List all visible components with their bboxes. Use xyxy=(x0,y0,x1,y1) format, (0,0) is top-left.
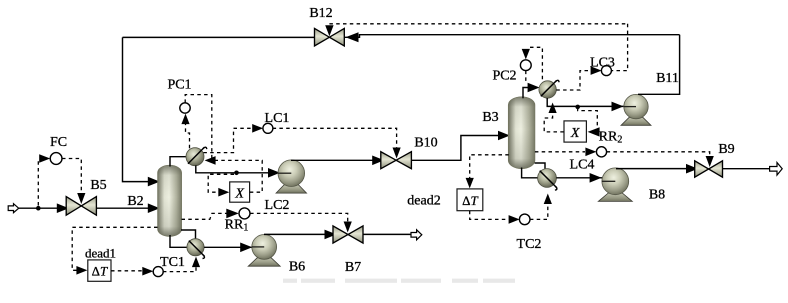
signal column B3 temperature tap to dead2 xyxy=(470,155,509,180)
signal condenser 2 to PC2 xyxy=(528,47,543,79)
signal arrow LC2 into valve B7 xyxy=(344,222,352,233)
signal X1 output to condenser 1 xyxy=(213,160,262,192)
signal arrow into FC xyxy=(39,154,50,163)
signal arrow into PC2 xyxy=(522,49,530,60)
signal LC4 to valve B9 xyxy=(607,152,710,158)
valve B12 xyxy=(315,28,330,46)
signal arrow into LC1 xyxy=(252,124,263,133)
signal arrow into TC2 xyxy=(509,215,520,224)
signal arrow X2 into condenser 2 xyxy=(549,103,557,114)
signal column B3 sump level to LC4 xyxy=(535,151,585,153)
signal column B2 sump level to LC2 xyxy=(182,213,229,219)
flow arrow into pump B11 xyxy=(612,102,624,112)
wire valve B10 to column B3 feed xyxy=(411,136,506,161)
svg-text:B11: B11 xyxy=(656,71,679,86)
signal arrow into condenser 1 xyxy=(205,156,216,165)
wire top recycle line right of B12 xyxy=(344,35,679,38)
valve B5 xyxy=(66,197,81,216)
signal X2 output to condenser 2 xyxy=(544,112,564,132)
svg-text:LC4: LC4 xyxy=(570,158,595,173)
signal arrow FC into valve B5 xyxy=(77,193,85,204)
signal arrow into LC3 xyxy=(591,66,602,75)
signal LC2 to valve B7 xyxy=(250,213,348,221)
flow arrow into valve B10 xyxy=(372,156,384,166)
svg-text:PC2: PC2 xyxy=(492,69,516,84)
svg-text:LC3: LC3 xyxy=(590,56,615,71)
svg-text:PC1: PC1 xyxy=(167,78,191,93)
deadtime box dead2 xyxy=(457,189,483,211)
flow arrow recycle into column B2 xyxy=(148,177,160,187)
signal column B2 temperature tap to dead1 xyxy=(72,227,157,270)
reboiler 2 (column B3 bottoms heater) xyxy=(538,169,557,188)
wire condenser 1 outlet to pump xyxy=(196,165,279,172)
signal arrow into LC2 xyxy=(226,209,239,219)
signal tap to multiplier X2 xyxy=(578,108,598,132)
flow arrow into distillate pump xyxy=(268,168,280,178)
wire column B2 side to reboiler 1 top xyxy=(181,230,196,239)
signal arrow TC1 into reboiler 1 xyxy=(192,257,200,268)
svg-text:FC: FC xyxy=(50,135,67,150)
signal arrow into TC1 xyxy=(142,267,153,276)
wire pump to valve B10 xyxy=(291,159,381,161)
signal arrow into X1 xyxy=(218,188,229,197)
svg-text:dead2: dead2 xyxy=(407,194,440,209)
condenser 2 (column B3 overhead heater) xyxy=(539,81,556,98)
feed inlet open arrow xyxy=(8,204,19,213)
signal arrow LC4 into valve B9 xyxy=(706,156,714,167)
wire B2 stream valve B5 to column B2 xyxy=(96,207,158,209)
wire top recycle line left of B12 xyxy=(123,36,315,38)
signal arrow into valve B12 xyxy=(325,25,333,36)
controller TC1 circle xyxy=(153,267,163,277)
wire feed line to valve B5 xyxy=(19,207,67,209)
controller LC3 circle xyxy=(601,66,611,76)
signal arrow into deadtime 1 xyxy=(76,266,87,275)
signal dead1 to TC1 xyxy=(111,270,145,272)
svg-text:TC1: TC1 xyxy=(160,255,185,270)
flow arrow B2 into column xyxy=(148,203,160,213)
svg-text:X: X xyxy=(234,187,244,202)
flow arrow overhead into condenser 2 xyxy=(528,83,540,93)
signal arrow into X2 xyxy=(588,127,600,136)
svg-text:RR1: RR1 xyxy=(225,218,249,234)
flow arrow feed into column B3 xyxy=(498,131,510,141)
node feed junction dot xyxy=(36,206,41,211)
svg-text:B5: B5 xyxy=(90,178,106,193)
pump B6 xyxy=(248,258,280,266)
pump B8 xyxy=(598,193,632,201)
signal arrow LC1 into valve B10 xyxy=(393,148,401,159)
signal feed flow tap to FC xyxy=(37,159,39,206)
svg-text:X: X xyxy=(570,126,580,141)
controller LC2/RR1 circle xyxy=(239,208,250,219)
wire pump B11 riser to top recycle line xyxy=(638,35,680,95)
node distillate junction dot xyxy=(234,171,239,176)
svg-text:TC2: TC2 xyxy=(517,237,542,252)
wire valve B7 outlet xyxy=(363,233,411,235)
pump B11 xyxy=(621,117,651,125)
svg-text:B8: B8 xyxy=(649,188,665,203)
svg-text:B9: B9 xyxy=(718,142,734,157)
svg-text:LC1: LC1 xyxy=(265,111,290,126)
wire pump B6 to valve B7 xyxy=(264,233,333,235)
column B3 vessel xyxy=(508,97,535,169)
controller TC2 circle xyxy=(519,214,530,225)
wire column B2 overhead to condenser xyxy=(170,157,186,167)
wire column B3 side to reboiler 2 top xyxy=(535,163,545,169)
flow arrow after B12 pointing left xyxy=(346,32,359,42)
pump distillate column 1 xyxy=(276,185,307,193)
signal arrow into LC4 xyxy=(585,148,596,157)
wire column B3 bottom to reboiler 2 xyxy=(522,168,538,178)
svg-text:LC2: LC2 xyxy=(265,198,290,213)
signal PC1 output loop xyxy=(185,95,212,161)
flow arrow into valve B5 xyxy=(57,203,69,213)
signal condenser 1 level tap to LC1 xyxy=(203,128,252,152)
deadtime box dead1 xyxy=(88,260,111,281)
valve B10 xyxy=(381,152,396,169)
svg-text:B7: B7 xyxy=(345,260,361,275)
svg-text:RR2: RR2 xyxy=(599,130,623,146)
signal PC2 output xyxy=(525,71,527,84)
controller LC4 circle xyxy=(596,147,606,157)
svg-text:B3: B3 xyxy=(482,110,498,125)
svg-text:B12: B12 xyxy=(309,6,332,21)
node distillate 2 junction dot xyxy=(575,105,580,110)
controller PC2 circle xyxy=(520,60,531,71)
signal condenser 1 to PC1 xyxy=(186,123,190,148)
svg-text:ΔT: ΔT xyxy=(92,264,108,279)
wire recycle riser left (from B12 down to column B2) xyxy=(123,37,158,181)
condenser 1 (column B2 overhead heater) xyxy=(186,148,204,166)
multiplier X1 box xyxy=(230,182,250,202)
signal arrow TC2 into reboiler 2 xyxy=(544,194,552,205)
signal arrow into deadtime 2 xyxy=(466,178,474,189)
wire column B3 overhead to condenser 2 xyxy=(523,88,528,99)
svg-text:B10: B10 xyxy=(414,136,437,151)
svg-text:ΔT: ΔT xyxy=(462,193,478,208)
valve B9 xyxy=(695,161,709,177)
bottoms 1 outlet open arrow xyxy=(411,230,422,240)
flow arrow into valve B7 xyxy=(325,230,337,240)
signal TC2 to reboiler 2 xyxy=(530,204,548,219)
flow arrow into valve B9 xyxy=(686,164,698,174)
signal riser x627 to LC3 xyxy=(611,24,627,71)
wire reboiler 1 to pump B6 xyxy=(204,246,253,248)
wire condenser 2 outlet to pump B11 xyxy=(547,98,624,106)
signal FC to valve B5 xyxy=(62,159,81,193)
signal LC1 to valve B10 xyxy=(273,128,397,147)
controller PC1 circle xyxy=(180,103,190,113)
signal TC1 to reboiler 1 xyxy=(163,262,196,272)
multiplier X2 box xyxy=(564,121,586,142)
signal condenser 2 level tap to LC3 xyxy=(556,71,590,90)
flow arrow into pump B6 xyxy=(240,243,252,253)
wire valve B9 outlet xyxy=(723,168,770,170)
signal arrow into PC1 xyxy=(181,114,189,125)
wire column B2 bottom to reboiler 1 xyxy=(170,235,187,247)
svg-text:B6: B6 xyxy=(289,260,305,275)
svg-text:dead1: dead1 xyxy=(85,246,116,261)
bottoms 2 outlet open arrow xyxy=(770,163,783,176)
flow arrow into pump B8 xyxy=(590,173,602,183)
signal tap to multiplier X1 xyxy=(208,174,234,192)
wire reboiler 2 to pump B8 xyxy=(556,177,602,179)
column B2 vessel xyxy=(158,165,182,236)
svg-text:B2: B2 xyxy=(127,194,143,209)
wire pump B8 to valve B9 xyxy=(616,168,695,170)
controller FC circle xyxy=(50,153,62,165)
signal top line to valve B12 xyxy=(329,23,627,25)
reboiler 1 (column B2 bottoms heater) xyxy=(187,239,204,256)
controller LC1 circle xyxy=(263,123,273,133)
signal dead2 to TC2 xyxy=(470,211,508,220)
valve B7 xyxy=(333,226,348,243)
faint cropped caption xyxy=(283,279,515,283)
